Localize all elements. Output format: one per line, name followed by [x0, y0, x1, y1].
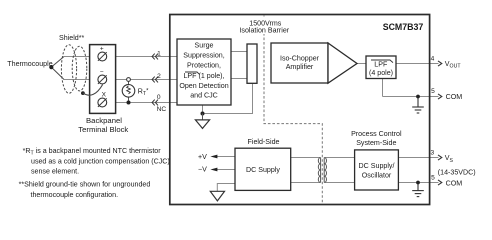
svg-text:+V: +V	[198, 153, 207, 161]
svg-text:5: 5	[431, 174, 435, 181]
svg-text:Iso-Chopper: Iso-Chopper	[280, 55, 320, 63]
svg-text:DC Supply: DC Supply	[246, 166, 280, 174]
svg-text:Backpanel: Backpanel	[86, 116, 122, 125]
svg-text:sense element.: sense element.	[31, 168, 79, 176]
svg-text:Amplifier: Amplifier	[286, 63, 314, 71]
svg-text:Oscillator: Oscillator	[362, 172, 392, 180]
svg-text:Field-Side: Field-Side	[248, 138, 280, 146]
svg-text:1: 1	[157, 50, 161, 57]
svg-text:Isolation Barrier: Isolation Barrier	[239, 27, 289, 35]
svg-text:0: 0	[157, 94, 161, 101]
svg-text:Suppression,: Suppression,	[183, 52, 224, 60]
svg-text:and CJC: and CJC	[190, 92, 218, 100]
svg-text:System-Side: System-Side	[356, 139, 396, 147]
svg-text:2: 2	[157, 73, 161, 80]
svg-text:+: +	[100, 46, 104, 53]
svg-text:3: 3	[430, 149, 434, 156]
svg-text:used as a cold junction compen: used as a cold junction compensation (CJ…	[31, 157, 170, 165]
svg-text:Surge: Surge	[195, 42, 214, 50]
svg-text:Process Control: Process Control	[351, 130, 402, 138]
svg-text:LPF: LPF	[374, 60, 388, 68]
svg-text:4: 4	[431, 56, 435, 63]
svg-text:−: −	[100, 69, 104, 76]
svg-text:Terminal Block: Terminal Block	[78, 125, 128, 134]
svg-text:COM: COM	[446, 93, 463, 101]
svg-text:Open Detection: Open Detection	[179, 82, 228, 90]
svg-text:SCM7B37: SCM7B37	[383, 22, 424, 32]
svg-text:−V: −V	[198, 166, 207, 174]
svg-text:(4 pole): (4 pole)	[369, 69, 393, 77]
svg-text:DC Supply/: DC Supply/	[359, 162, 395, 170]
svg-text:Thermocouple: Thermocouple	[7, 60, 52, 68]
svg-text:X: X	[102, 91, 107, 98]
svg-text:Protection,: Protection,	[187, 62, 221, 70]
svg-text:LPF (1 pole),: LPF (1 pole),	[183, 72, 224, 80]
svg-text:Shield**: Shield**	[59, 34, 84, 42]
svg-text:**Shield ground-tie shown for: **Shield ground-tie shown for ungrounded	[19, 181, 151, 189]
svg-text:(14-35VDC): (14-35VDC)	[438, 169, 476, 177]
svg-text:5: 5	[431, 88, 435, 95]
svg-text:COM: COM	[446, 179, 463, 187]
svg-text:thermocouple configuration.: thermocouple configuration.	[31, 191, 119, 199]
svg-text:NC: NC	[157, 106, 167, 113]
